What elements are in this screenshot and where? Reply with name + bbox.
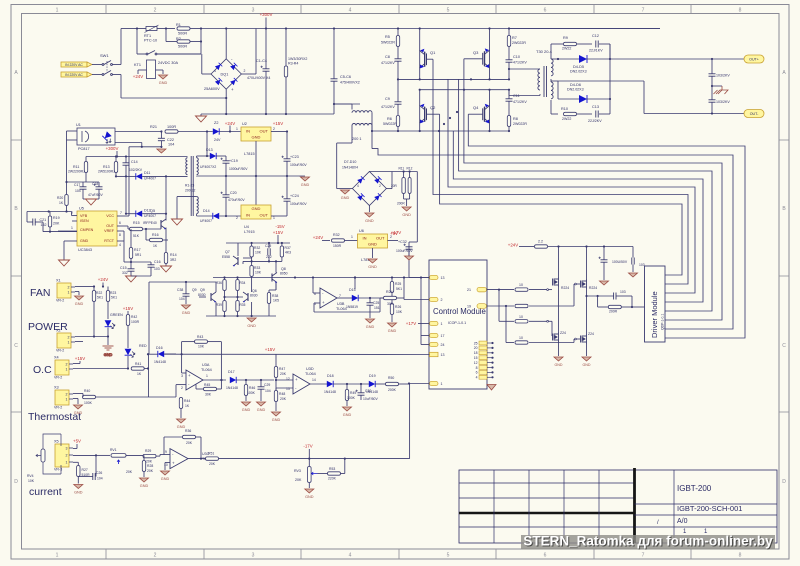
wire (505, 306, 507, 343)
wire (358, 297, 384, 299)
wire (165, 228, 167, 256)
wire (107, 328, 109, 346)
svg-text:GND: GND (366, 325, 375, 329)
wire (632, 265, 634, 273)
wire (176, 384, 186, 386)
wire (551, 80, 558, 82)
wire (549, 320, 553, 322)
svg-text:2: 2 (236, 216, 238, 220)
svg-text:D18: D18 (327, 374, 334, 378)
junction (93, 285, 95, 287)
wire (404, 198, 410, 200)
svg-text:4: 4 (119, 243, 121, 247)
svg-text:RV3: RV3 (294, 469, 301, 473)
diode D14 (213, 213, 219, 219)
wire (388, 240, 399, 242)
frame tick (690, 5, 692, 560)
svg-text:100K: 100K (84, 401, 93, 405)
pin 2 (430, 297, 439, 301)
junction (391, 276, 393, 278)
svg-text:1: 1 (68, 340, 70, 344)
frame tick (11, 275, 789, 277)
transistor gate FET4 (581, 334, 587, 344)
svg-text:12: 12 (474, 361, 478, 365)
wire (643, 81, 645, 114)
svg-text:O.C: O.C (33, 364, 52, 376)
wire (408, 246, 410, 278)
svg-text:R23: R23 (110, 291, 116, 295)
wire (115, 157, 117, 162)
wire (409, 172, 411, 178)
svg-text:GND: GND (242, 408, 251, 412)
transformer flyback primary (186, 158, 188, 175)
resistor Rg2 (515, 304, 528, 307)
LED RED (125, 349, 135, 357)
wire (220, 380, 222, 389)
wire bottom rail (219, 458, 410, 460)
wire (391, 315, 393, 323)
svg-text:C21: C21 (40, 218, 47, 222)
resistor R1 (177, 27, 190, 30)
junction (125, 155, 127, 157)
wire (98, 189, 100, 199)
svg-text:1N4148: 1N4148 (154, 360, 166, 364)
wire (160, 226, 162, 229)
wire (130, 259, 132, 263)
junction (141, 146, 143, 148)
wire (78, 476, 93, 478)
capacitor C15 (128, 269, 135, 271)
junction (251, 260, 253, 262)
wire (509, 95, 540, 97)
wire (509, 68, 540, 70)
wire (344, 459, 346, 474)
wire (165, 462, 170, 464)
wire (85, 173, 87, 183)
wire (237, 297, 239, 301)
transformer flyback core (191, 156, 193, 216)
junction (491, 342, 493, 344)
transistor Q9 (211, 292, 216, 302)
svg-text:D4-D6: D4-D6 (570, 83, 581, 87)
wire (92, 74, 102, 76)
wire lower mid rail (420, 89, 509, 91)
wire (333, 104, 335, 114)
wire (603, 262, 605, 280)
svg-text:1: 1 (56, 8, 59, 14)
wire (200, 114, 202, 116)
svg-text:103: 103 (620, 290, 626, 294)
svg-text:22J/1KV: 22J/1KV (589, 49, 603, 53)
svg-text:+C23: +C23 (290, 155, 299, 159)
svg-text:X2: X2 (56, 329, 61, 333)
svg-text:C26: C26 (96, 471, 102, 475)
resistor R3-R4 (284, 66, 287, 77)
wire +24V rail (548, 246, 633, 248)
svg-text:+C24: +C24 (290, 194, 299, 198)
ground R28 (140, 478, 149, 488)
wire (148, 396, 176, 398)
ground R27 (74, 485, 83, 495)
junction (456, 111, 458, 113)
junction (420, 276, 422, 278)
wire (275, 283, 277, 291)
svg-text:R50: R50 (388, 376, 394, 380)
svg-text:R37: R37 (285, 246, 291, 250)
wire (92, 64, 102, 66)
wire (276, 379, 293, 381)
svg-text:1: 1 (71, 226, 73, 230)
wire (286, 161, 288, 176)
wire (313, 303, 315, 312)
wire (200, 29, 202, 55)
svg-text:+: + (295, 377, 298, 382)
wire (131, 275, 151, 277)
svg-text:IN: IN (246, 129, 250, 134)
svg-text:R19: R19 (53, 216, 60, 220)
wire FET2-4 (586, 289, 588, 334)
svg-text:471/2KV: 471/2KV (513, 100, 527, 104)
svg-text:47uF/50V: 47uF/50V (88, 193, 103, 197)
svg-text:1: 1 (236, 127, 238, 131)
wire (243, 257, 252, 259)
svg-text:C38: C38 (177, 288, 183, 292)
diode D16 (158, 351, 164, 357)
wire (130, 271, 132, 276)
wire (176, 197, 178, 219)
svg-text:R34: R34 (240, 281, 246, 285)
switch SW1 link (106, 61, 108, 72)
svg-text:17: 17 (441, 334, 445, 338)
svg-text:R29: R29 (145, 449, 151, 453)
wire (197, 155, 210, 157)
svg-text:Z24: Z24 (588, 332, 594, 336)
connector X2 POWER (56, 329, 75, 353)
wire (371, 126, 373, 149)
wire long rail to pin 13 (164, 353, 429, 355)
svg-text:X4: X4 (54, 356, 59, 360)
wire (380, 297, 392, 299)
capacitor C29 (258, 387, 265, 389)
capacitor C11 (506, 99, 513, 101)
wire (337, 188, 353, 190)
svg-text:30K: 30K (387, 302, 394, 306)
svg-text:+: + (231, 87, 234, 92)
svg-text:GND: GND (555, 363, 563, 367)
wire (121, 28, 137, 30)
svg-text:KT1: KT1 (134, 63, 141, 67)
svg-text:R17: R17 (134, 248, 141, 252)
svg-text:R26: R26 (395, 305, 401, 309)
wire VREF (117, 230, 124, 232)
wire (126, 175, 136, 177)
wire (573, 339, 575, 343)
wire (165, 264, 167, 267)
svg-text:+24V: +24V (313, 235, 323, 240)
wire driver bundle 1 (468, 114, 745, 338)
transistor Q4 (483, 104, 490, 124)
wire (219, 131, 241, 133)
svg-text:2.2: 2.2 (538, 240, 543, 244)
svg-text:Q7: Q7 (225, 250, 230, 254)
wire (529, 289, 547, 291)
wire (93, 287, 95, 291)
svg-text:8050: 8050 (280, 272, 288, 276)
capacitor C8 (395, 59, 402, 61)
svg-text:C: C (14, 343, 18, 349)
svg-text:R39: R39 (216, 303, 222, 307)
wire (275, 402, 277, 412)
frame tick (11, 411, 789, 413)
resistor R40 (83, 395, 96, 398)
junction (631, 306, 633, 308)
svg-text:R44: R44 (184, 399, 190, 403)
junction (508, 78, 510, 80)
svg-text:C29: C29 (264, 383, 270, 387)
svg-text:C15: C15 (120, 266, 127, 270)
wire (558, 98, 579, 100)
resistor R2 (177, 40, 190, 43)
svg-text:GREEN: GREEN (110, 313, 123, 317)
wire center tap (558, 80, 644, 82)
svg-text:C14: C14 (131, 160, 138, 164)
wire (175, 385, 177, 397)
resistor R21 (165, 130, 178, 133)
pin 25 (479, 341, 487, 345)
junction (285, 113, 287, 115)
wire (314, 302, 320, 304)
svg-text:1N4148X4: 1N4148X4 (342, 166, 358, 170)
svg-text:103/2KV: 103/2KV (716, 100, 730, 104)
svg-text:20K: 20K (295, 478, 302, 482)
junction (505, 305, 507, 307)
svg-text:20K: 20K (53, 222, 60, 226)
resistor R41 (131, 367, 144, 370)
resistor R11b (402, 178, 405, 194)
svg-text:C9: C9 (385, 97, 390, 101)
wire (550, 100, 552, 114)
wire (251, 261, 253, 265)
wire (178, 131, 213, 133)
svg-text:+C19: +C19 (229, 159, 238, 163)
svg-text:GND: GND (365, 219, 374, 223)
svg-text:R16: R16 (152, 233, 159, 237)
svg-text:20K: 20K (209, 462, 216, 466)
wire (386, 188, 392, 190)
svg-text:IN 220V AC: IN 220V AC (65, 73, 83, 77)
ground R48 (272, 412, 281, 422)
svg-text:+15V: +15V (75, 356, 85, 361)
junction (260, 379, 262, 381)
wire (128, 147, 130, 216)
capacitor 100U/50V (601, 260, 608, 262)
svg-text:R20: R20 (57, 196, 63, 200)
resistor R19 (48, 216, 51, 227)
svg-text:20K: 20K (147, 469, 154, 473)
junction (711, 112, 713, 114)
junction (147, 353, 149, 355)
wire pin (487, 357, 492, 359)
wire pin13 (409, 277, 430, 279)
svg-text:R27: R27 (82, 468, 88, 472)
capacitor C22 (158, 138, 165, 140)
wire Q3 gate (464, 58, 483, 60)
resistor R35 (236, 301, 239, 312)
wire pin1 (418, 323, 430, 325)
svg-text:+: + (188, 373, 191, 378)
svg-text:2: 2 (154, 8, 157, 14)
wire (406, 199, 408, 206)
svg-text:GND: GND (159, 81, 168, 85)
wire driver bundle 3 (459, 79, 712, 311)
svg-text:DQ1: DQ1 (221, 73, 229, 77)
junction (115, 175, 117, 177)
wire OUT (117, 225, 128, 227)
junction (449, 117, 451, 119)
junction (127, 367, 129, 369)
resistor R42 (126, 315, 129, 326)
svg-text:25A600V: 25A600V (204, 87, 220, 91)
junction (281, 242, 283, 244)
junction (508, 27, 510, 29)
junction (491, 366, 493, 368)
svg-text:ICOP-1-0.1: ICOP-1-0.1 (448, 321, 466, 325)
resistor R50 (386, 382, 399, 385)
wire (551, 58, 558, 60)
wire (409, 194, 411, 200)
wire (341, 473, 345, 475)
ground Q5 (161, 266, 172, 272)
pin 21 (477, 287, 487, 292)
svg-text:OUT: OUT (260, 129, 269, 134)
wire (190, 41, 201, 43)
wire (215, 302, 217, 316)
svg-text:STERN_Ratomka для forum-online: STERN_Ratomka для forum-onliner.by (523, 534, 773, 549)
resistor R38 (267, 293, 270, 304)
wire (196, 388, 204, 390)
wire (281, 243, 283, 246)
capacitor C17 (80, 187, 87, 189)
junction (397, 78, 399, 80)
transistor Q6 (243, 292, 248, 302)
svg-text:2W2200RJ: 2W2200RJ (68, 170, 85, 174)
svg-text:5: 5 (447, 553, 450, 559)
junction (488, 89, 490, 91)
svg-text:30K: 30K (205, 393, 212, 397)
wire (529, 305, 574, 307)
wire (150, 262, 152, 265)
junction (308, 458, 310, 460)
svg-text:R24: R24 (386, 290, 393, 294)
svg-text:D: D (14, 479, 18, 485)
wire (275, 261, 277, 272)
svg-text:IRFPE40: IRFPE40 (143, 221, 157, 225)
ground GREEN (103, 346, 114, 357)
wire (403, 278, 405, 299)
junction (443, 123, 445, 125)
wire (149, 281, 216, 283)
wire gate row1 (487, 289, 515, 291)
wire (115, 173, 117, 177)
wire (573, 284, 575, 306)
svg-text:R3-R4: R3-R4 (288, 62, 298, 66)
wire U5 top rail (27, 211, 72, 213)
wire (336, 143, 338, 189)
junction (403, 170, 405, 172)
connector OUT- (744, 110, 764, 118)
svg-text:IGBT-200-SCH-001: IGBT-200-SCH-001 (677, 504, 742, 513)
wire (127, 326, 129, 349)
svg-text:VREF: VREF (104, 229, 115, 233)
wire Q4 branch (489, 90, 491, 131)
svg-text:470uF/50V: 470uF/50V (228, 198, 245, 202)
wire (354, 278, 356, 290)
junction (488, 78, 490, 80)
svg-text:Q4: Q4 (473, 105, 479, 110)
transformer CT primary (352, 111, 372, 113)
module Driver Module box (645, 266, 666, 342)
wire (166, 41, 177, 43)
svg-text:+24V: +24V (508, 243, 518, 248)
svg-text:25: 25 (474, 341, 478, 345)
svg-text:U5: U5 (79, 207, 84, 211)
ground FET3 (554, 357, 563, 361)
svg-text:R11: R11 (73, 165, 79, 169)
ground C29 (257, 402, 266, 412)
circle gate3 (547, 320, 549, 322)
svg-text:U4: U4 (244, 225, 249, 229)
svg-text:9: 9 (165, 450, 167, 454)
svg-text:Q8: Q8 (281, 267, 286, 271)
opto U1 (77, 128, 115, 145)
wire (269, 289, 276, 291)
wire pin (487, 342, 492, 344)
svg-text:+C32: +C32 (398, 240, 407, 244)
junction (438, 130, 440, 132)
svg-text:+24V: +24V (133, 74, 143, 79)
wire (113, 74, 122, 76)
wire (285, 77, 287, 114)
capacitor output top (709, 74, 716, 76)
svg-text:OUT-: OUT- (750, 112, 759, 116)
wire (712, 85, 722, 87)
diode D4-D6 (579, 95, 587, 103)
pin 1 (430, 381, 439, 385)
svg-text:C: C (782, 343, 786, 349)
svg-text:+: + (172, 461, 175, 466)
svg-text:UC3843: UC3843 (78, 248, 92, 252)
wire FET4 src (586, 344, 588, 356)
resistor 2.2 (535, 245, 548, 248)
resistor R37 (280, 246, 283, 257)
resistor R9 (564, 42, 577, 45)
junction (136, 27, 138, 29)
svg-text:D17: D17 (228, 370, 235, 374)
svg-text:VFB: VFB (80, 214, 88, 218)
wire (251, 302, 253, 316)
op-amp U3D (293, 374, 310, 394)
transistor Q1 (420, 49, 427, 69)
junction (206, 155, 208, 157)
wire (379, 298, 381, 312)
svg-text:R33: R33 (254, 266, 260, 270)
wire pin2 (404, 299, 430, 301)
junction (286, 175, 288, 177)
svg-text:470U/400V X4: 470U/400V X4 (247, 76, 270, 80)
svg-text:R6: R6 (387, 117, 392, 121)
svg-text:-15V: -15V (275, 224, 284, 229)
junction (147, 367, 149, 369)
